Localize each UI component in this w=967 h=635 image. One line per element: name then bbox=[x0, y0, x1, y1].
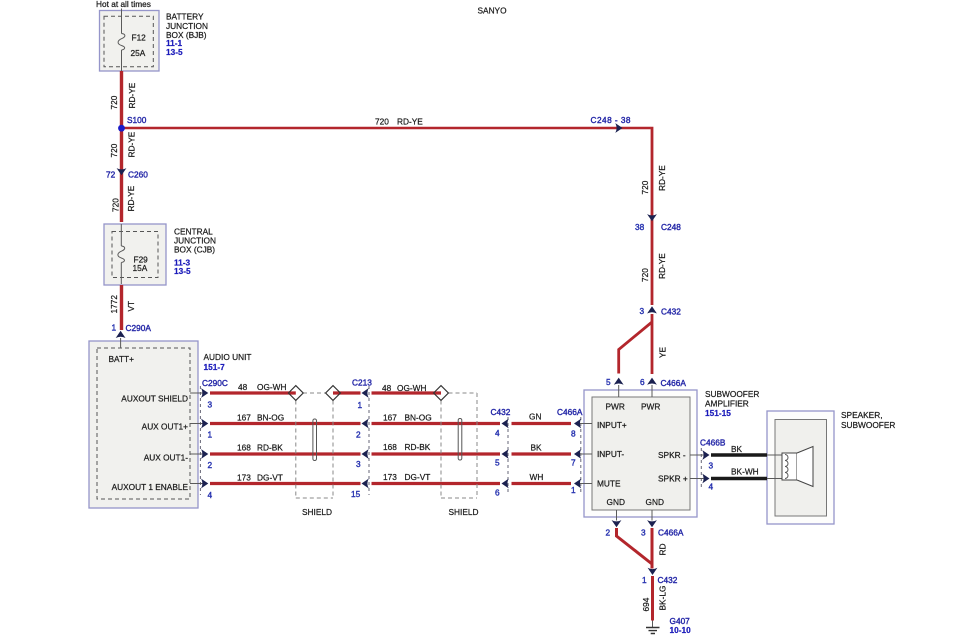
svg-text:RD-BK: RD-BK bbox=[257, 443, 283, 453]
svg-text:SPEAKER,: SPEAKER, bbox=[841, 410, 883, 420]
svg-text:GND: GND bbox=[607, 497, 625, 507]
svg-text:720: 720 bbox=[640, 268, 650, 282]
svg-text:C260: C260 bbox=[128, 170, 148, 180]
svg-text:SANYO: SANYO bbox=[478, 6, 508, 16]
svg-text:C248: C248 bbox=[661, 222, 681, 232]
svg-text:720: 720 bbox=[111, 198, 121, 212]
svg-text:1: 1 bbox=[208, 430, 213, 440]
svg-text:1: 1 bbox=[571, 485, 576, 495]
svg-text:25A: 25A bbox=[131, 48, 146, 58]
svg-text:Hot at all times: Hot at all times bbox=[96, 0, 151, 9]
svg-text:INPUT+: INPUT+ bbox=[597, 420, 627, 430]
svg-text:151-15: 151-15 bbox=[705, 408, 731, 418]
svg-text:AUX OUT1-: AUX OUT1- bbox=[144, 453, 188, 463]
svg-text:168: 168 bbox=[237, 443, 251, 453]
svg-text:2: 2 bbox=[356, 430, 361, 440]
svg-text:AUXOUT 1 ENABLE: AUXOUT 1 ENABLE bbox=[112, 482, 189, 492]
svg-text:6: 6 bbox=[640, 377, 645, 387]
svg-text:S100: S100 bbox=[127, 115, 147, 125]
svg-text:AUXOUT SHIELD: AUXOUT SHIELD bbox=[121, 394, 188, 404]
svg-text:YE: YE bbox=[658, 346, 668, 358]
svg-text:OG-WH: OG-WH bbox=[397, 383, 427, 393]
svg-text:3: 3 bbox=[356, 459, 361, 469]
svg-text:OG-WH: OG-WH bbox=[257, 382, 287, 392]
svg-text:BK-WH: BK-WH bbox=[731, 467, 759, 477]
svg-text:48: 48 bbox=[238, 382, 248, 392]
svg-text:AUX OUT1+: AUX OUT1+ bbox=[142, 422, 188, 432]
svg-text:720: 720 bbox=[375, 117, 389, 127]
svg-text:8: 8 bbox=[571, 429, 576, 439]
svg-text:INPUT-: INPUT- bbox=[597, 449, 624, 459]
svg-text:VT: VT bbox=[126, 301, 136, 312]
svg-text:C432: C432 bbox=[658, 575, 678, 585]
svg-text:151-7: 151-7 bbox=[204, 362, 226, 372]
svg-text:BK: BK bbox=[531, 443, 543, 453]
svg-text:RD-YE: RD-YE bbox=[657, 253, 667, 279]
svg-text:RD-YE: RD-YE bbox=[127, 131, 137, 157]
svg-text:F12: F12 bbox=[132, 33, 147, 43]
svg-text:RD-BK: RD-BK bbox=[405, 442, 431, 452]
svg-text:C432: C432 bbox=[491, 407, 511, 417]
svg-text:SHIELD: SHIELD bbox=[302, 507, 332, 517]
svg-text:4: 4 bbox=[208, 490, 213, 500]
svg-text:GN: GN bbox=[529, 412, 541, 422]
svg-text:DG-VT: DG-VT bbox=[405, 472, 431, 482]
svg-text:BOX (CJB): BOX (CJB) bbox=[174, 245, 215, 255]
svg-text:AMPLIFIER: AMPLIFIER bbox=[705, 399, 749, 409]
svg-text:SUBWOOFER: SUBWOOFER bbox=[841, 420, 895, 430]
svg-text:3: 3 bbox=[641, 528, 646, 538]
svg-text:C432: C432 bbox=[661, 307, 681, 317]
svg-text:38: 38 bbox=[635, 222, 645, 232]
svg-text:3: 3 bbox=[709, 461, 714, 471]
svg-text:RD: RD bbox=[658, 544, 668, 556]
svg-text:2: 2 bbox=[208, 460, 213, 470]
svg-text:C466A: C466A bbox=[557, 407, 583, 417]
svg-text:BK-LG: BK-LG bbox=[658, 586, 668, 611]
svg-text:PWR: PWR bbox=[606, 402, 625, 412]
svg-text:168: 168 bbox=[383, 442, 397, 452]
svg-text:720: 720 bbox=[640, 180, 650, 194]
svg-text:7: 7 bbox=[571, 458, 576, 468]
svg-text:13-5: 13-5 bbox=[174, 266, 191, 276]
svg-text:AUDIO UNIT: AUDIO UNIT bbox=[204, 352, 252, 362]
svg-text:173: 173 bbox=[237, 473, 251, 483]
svg-text:RD-YE: RD-YE bbox=[657, 165, 667, 191]
svg-text:SPKR +: SPKR + bbox=[658, 474, 688, 484]
svg-text:720: 720 bbox=[109, 143, 119, 157]
svg-text:48: 48 bbox=[382, 383, 392, 393]
svg-text:694: 694 bbox=[641, 597, 651, 611]
svg-text:1772: 1772 bbox=[109, 295, 119, 314]
svg-text:2: 2 bbox=[606, 528, 611, 538]
svg-text:4: 4 bbox=[709, 482, 714, 492]
svg-text:15: 15 bbox=[351, 489, 361, 499]
svg-text:C248 - 38: C248 - 38 bbox=[591, 115, 632, 125]
svg-text:C466A: C466A bbox=[661, 378, 687, 388]
svg-text:GND: GND bbox=[646, 497, 664, 507]
svg-text:RD-YE: RD-YE bbox=[126, 185, 136, 211]
svg-text:WH: WH bbox=[530, 472, 544, 482]
svg-text:DG-VT: DG-VT bbox=[257, 473, 283, 483]
svg-text:BN-OG: BN-OG bbox=[405, 413, 432, 423]
svg-text:C213: C213 bbox=[352, 378, 372, 388]
svg-text:C466A: C466A bbox=[658, 528, 684, 538]
svg-text:3: 3 bbox=[208, 400, 213, 410]
svg-text:BN-OG: BN-OG bbox=[257, 413, 284, 423]
svg-text:RD-YE: RD-YE bbox=[397, 117, 423, 127]
svg-text:C466B: C466B bbox=[700, 438, 726, 448]
svg-text:5: 5 bbox=[606, 377, 611, 387]
svg-text:1: 1 bbox=[112, 323, 117, 333]
svg-text:1: 1 bbox=[642, 575, 647, 585]
svg-text:4: 4 bbox=[495, 428, 500, 438]
svg-text:10-10: 10-10 bbox=[670, 625, 692, 635]
svg-text:MUTE: MUTE bbox=[597, 479, 621, 489]
svg-text:RD-YE: RD-YE bbox=[127, 82, 137, 108]
svg-text:BK: BK bbox=[731, 444, 743, 454]
svg-text:167: 167 bbox=[237, 413, 251, 423]
svg-text:15A: 15A bbox=[133, 263, 148, 273]
svg-text:5: 5 bbox=[495, 458, 500, 468]
svg-text:1: 1 bbox=[358, 400, 363, 410]
svg-text:6: 6 bbox=[495, 488, 500, 498]
svg-text:SUBWOOFER: SUBWOOFER bbox=[705, 389, 759, 399]
svg-text:13-5: 13-5 bbox=[166, 47, 183, 57]
svg-text:72: 72 bbox=[106, 170, 116, 180]
svg-text:BATT+: BATT+ bbox=[109, 354, 135, 364]
svg-text:173: 173 bbox=[383, 472, 397, 482]
svg-text:C290A: C290A bbox=[126, 323, 152, 333]
svg-text:720: 720 bbox=[109, 95, 119, 109]
svg-text:PWR: PWR bbox=[641, 402, 660, 412]
svg-text:SHIELD: SHIELD bbox=[449, 507, 479, 517]
svg-text:C290C: C290C bbox=[202, 378, 228, 388]
svg-text:167: 167 bbox=[383, 413, 397, 423]
svg-text:SPKR -: SPKR - bbox=[658, 450, 686, 460]
svg-text:3: 3 bbox=[640, 306, 645, 316]
